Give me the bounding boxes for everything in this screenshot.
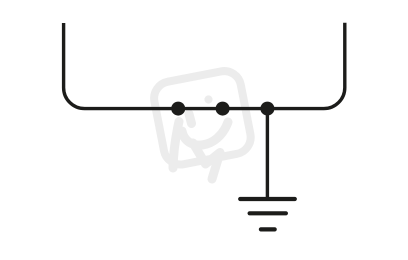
node junction 2 (216, 102, 230, 116)
watermark logo (151, 68, 253, 167)
node junction 1 (171, 102, 185, 116)
node junction 3 (260, 102, 274, 116)
wire: main bus conductor (64, 23, 345, 109)
wire to ground (266, 109, 269, 199)
ground (240, 199, 295, 229)
